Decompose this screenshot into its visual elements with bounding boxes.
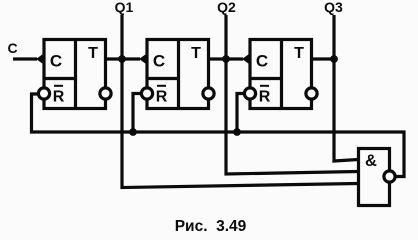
svg-text:Q1: Q1 <box>115 0 134 15</box>
svg-text:Q2: Q2 <box>217 0 236 15</box>
node junction DD3 R on reset bus <box>233 128 241 136</box>
flip-flop DD2 R inversion bubble <box>141 88 152 99</box>
wire reset bus: NAND output up and left to all R inputs <box>32 94 405 177</box>
flip-flop DD1 R inversion bubble <box>38 88 49 99</box>
svg-text:Q3: Q3 <box>324 0 343 15</box>
NAND gate DD4 body <box>359 149 390 206</box>
wire net Q1: vertical from label down, then right into NAND input <box>122 15 358 188</box>
NAND gate DD4 output inversion bubble <box>384 171 395 182</box>
flip-flop DD3 R inversion bubble <box>244 88 255 99</box>
flip-flop DD1 body <box>43 38 106 110</box>
svg-text:C: C <box>50 52 62 71</box>
node junction Q3 <box>330 55 338 63</box>
flip-flop DD3 inverse output bubble <box>306 88 317 99</box>
flip-flop DD2 body <box>146 38 209 110</box>
flip-flop DD3 body <box>249 38 312 110</box>
wire net Q3: vertical from label down, then right into NAND input <box>334 15 358 161</box>
svg-text:T: T <box>294 45 304 62</box>
node junction Q1 <box>118 55 126 63</box>
svg-text:C: C <box>153 52 165 71</box>
node junction Q2 <box>222 55 230 63</box>
flip-flop DD2 dynamic clock wedge <box>139 53 148 65</box>
flip-flop DD1 inverse output bubble <box>100 88 111 99</box>
node junction DD2 R on reset bus <box>129 128 137 136</box>
svg-text:T: T <box>88 45 98 62</box>
svg-text:R: R <box>53 89 65 106</box>
svg-text:&: & <box>365 152 377 170</box>
wire DD2 Q output to DD3 clock <box>209 57 243 60</box>
svg-text:C: C <box>256 52 268 71</box>
wire net Q2: vertical from label down, then right into NAND input <box>226 15 358 174</box>
svg-text:C: C <box>8 40 18 56</box>
flip-flop DD1 dynamic clock wedge <box>36 53 45 65</box>
svg-text:T: T <box>191 45 201 62</box>
svg-text:Рис. 3.49: Рис. 3.49 <box>175 218 247 235</box>
svg-text:R: R <box>156 89 168 106</box>
svg-text:R: R <box>259 89 271 106</box>
wire DD2 R input branch <box>133 94 147 133</box>
flip-flop DD2 inverse output bubble <box>203 88 214 99</box>
wire C input to DD1 clock <box>13 57 37 60</box>
wire DD3 Q output to Q3 node <box>312 57 334 60</box>
wire DD3 R input branch <box>237 94 250 133</box>
wire DD1 Q output to DD2 clock <box>106 57 140 60</box>
flip-flop DD3 dynamic clock wedge <box>242 53 251 65</box>
